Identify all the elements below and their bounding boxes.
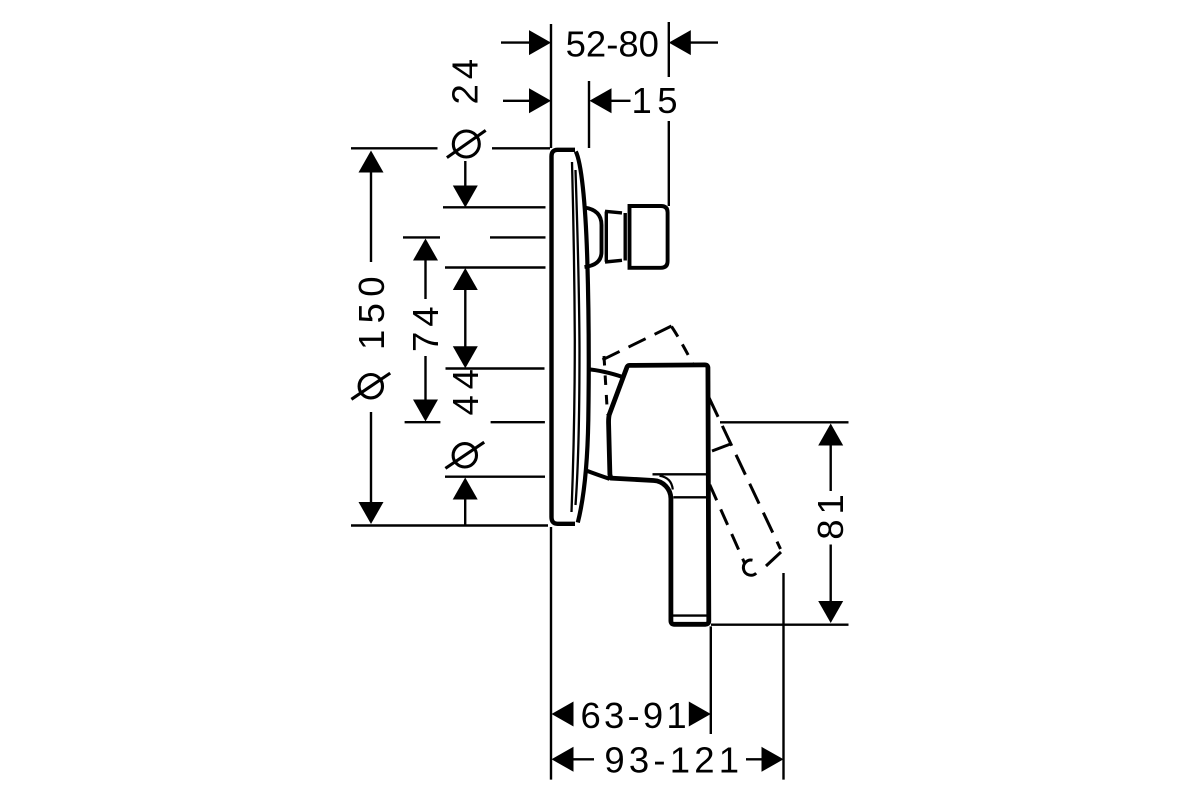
extension line lever ledge (y=476.7) xyxy=(445,476,545,478)
dimension D24 label and arrows (column x=465.3) xyxy=(445,54,486,368)
extension line lever top (y=368.5) xyxy=(446,367,545,369)
svg-text:150: 150 xyxy=(351,270,392,350)
extension line plate-back vertical top (x=551) xyxy=(550,24,552,148)
dashed raised-lever ledge tick xyxy=(712,444,731,451)
extension line grip-right vertical bottom (x=710.8) xyxy=(710,626,712,734)
extension line plate-back vertical bottom xyxy=(550,527,552,780)
extension line 74-bottom (y=422.2) xyxy=(405,421,545,423)
extension line knob top (y=207.3) xyxy=(443,206,546,208)
escutcheon plate inner contour line 1 xyxy=(572,162,575,512)
dimension 63-91 xyxy=(552,695,711,736)
lever step lower line xyxy=(673,496,706,498)
escutcheon plate front face xyxy=(576,152,589,523)
svg-text:44: 44 xyxy=(445,363,486,415)
extension line knob center (y=237.4) xyxy=(403,236,546,238)
svg-text:52-80: 52-80 xyxy=(566,23,659,64)
extension line plate top (y=148.3) xyxy=(351,147,550,149)
svg-text:24: 24 xyxy=(445,54,486,105)
diameter symbol for 24 xyxy=(453,131,479,157)
lever ledge line xyxy=(653,473,707,475)
dashed raised-lever top edge xyxy=(603,326,672,360)
knob collar cone xyxy=(585,208,602,268)
escutcheon plate inner contour line 2 xyxy=(576,170,580,505)
extension line knob-right vertical (x=668.8) xyxy=(668,22,670,206)
svg-text:63-91: 63-91 xyxy=(581,695,690,736)
dashed raised-lever right corner edge xyxy=(672,327,696,369)
knob cap xyxy=(630,206,668,268)
svg-text:81: 81 xyxy=(810,489,851,540)
lever handle body (head + grip) xyxy=(609,365,709,624)
escutcheon plate body (back edge, top and bottom) xyxy=(552,150,576,524)
extension line 81-bottom (y=624.7) xyxy=(711,624,849,626)
lever collar top arc xyxy=(588,369,624,377)
knob first cylinder xyxy=(605,211,622,262)
dashed raised-lever hidden left edge near plate xyxy=(604,356,608,415)
dimension 81 (right, rotated) xyxy=(810,424,851,624)
diameter symbol for 44 xyxy=(453,444,476,467)
dimension D44 label and arrow (column x=465.2) xyxy=(445,363,486,525)
dimension D150 (left, rotated) xyxy=(351,151,392,525)
extension line knob bottom (y=267.5) xyxy=(445,266,546,268)
extension line dashed-handle-end vertical (x=784) xyxy=(782,573,784,780)
lever step inner curve xyxy=(660,476,673,490)
svg-text:74: 74 xyxy=(405,301,446,352)
extension line plate bottom (y=525.5) xyxy=(351,524,548,526)
lever collar bottom arc xyxy=(585,470,610,479)
dimension 15 xyxy=(503,80,683,121)
dashed raised-lever end cap xyxy=(743,552,781,575)
extension line 81-top (y=422.3) xyxy=(720,421,849,423)
grip inner bottom line xyxy=(672,614,706,616)
svg-text:15: 15 xyxy=(632,80,684,121)
knob ring line xyxy=(624,213,627,261)
dimension 74 (rotated) xyxy=(405,239,446,422)
dimension 52-80 top xyxy=(501,23,718,64)
dashed raised-lever grip right edge xyxy=(695,368,781,549)
svg-text:93-121: 93-121 xyxy=(604,740,743,781)
diameter symbol for 150 xyxy=(359,375,382,398)
dashed raised-lever grip left edge xyxy=(699,460,745,564)
extension line plate-front vertical (x=589) xyxy=(588,81,590,148)
dimension 93-121 xyxy=(552,740,784,781)
